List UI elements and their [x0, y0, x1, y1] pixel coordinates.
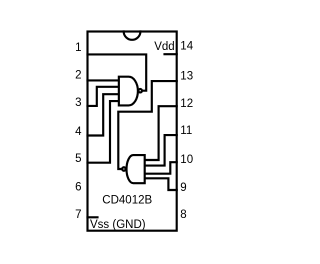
svg-text:1: 1 [75, 42, 81, 54]
wire pin13 to U2 output [118, 81, 176, 169]
svg-text:7: 7 [75, 209, 81, 221]
svg-text:12: 12 [180, 98, 193, 110]
svg-text:Vdd: Vdd [154, 41, 174, 53]
svg-text:10: 10 [180, 154, 193, 166]
svg-text:8: 8 [180, 209, 186, 221]
wire pin4 to U1 in3 [88, 94, 119, 135]
svg-text:4: 4 [75, 126, 82, 138]
wire pin9 to U2 in4 [145, 178, 177, 190]
NAND gate U2 [127, 155, 145, 183]
wire pin2 to U1 in1 [88, 79, 119, 81]
svg-text:6: 6 [75, 182, 81, 194]
wire pin10 to U2 in3 [145, 162, 177, 174]
wire pin11 to U2 in2 [145, 135, 177, 166]
svg-text:11: 11 [180, 125, 192, 137]
wire pin12 to U2 in1 [145, 106, 177, 160]
svg-text:5: 5 [75, 153, 81, 165]
U1 output bubble [138, 89, 142, 93]
wire pin5 to U1 in4 [88, 101, 119, 163]
pin 7 Vss tick [88, 216, 98, 218]
svg-text:9: 9 [180, 182, 186, 194]
wire pin1 to U1 output [88, 54, 147, 90]
IC body outline [88, 32, 177, 231]
notch [124, 32, 141, 40]
svg-text:3: 3 [75, 97, 81, 109]
U2 output bubble [122, 167, 126, 171]
pin 14 Vdd wire [165, 53, 177, 55]
svg-text:CD4012B: CD4012B [102, 195, 152, 207]
svg-text:Vss (GND): Vss (GND) [90, 219, 146, 231]
svg-text:14: 14 [180, 41, 193, 53]
svg-text:13: 13 [180, 71, 193, 83]
svg-text:2: 2 [75, 70, 81, 82]
NAND gate U1 [119, 77, 138, 106]
wire pin3 to U1 in2 [88, 87, 119, 106]
